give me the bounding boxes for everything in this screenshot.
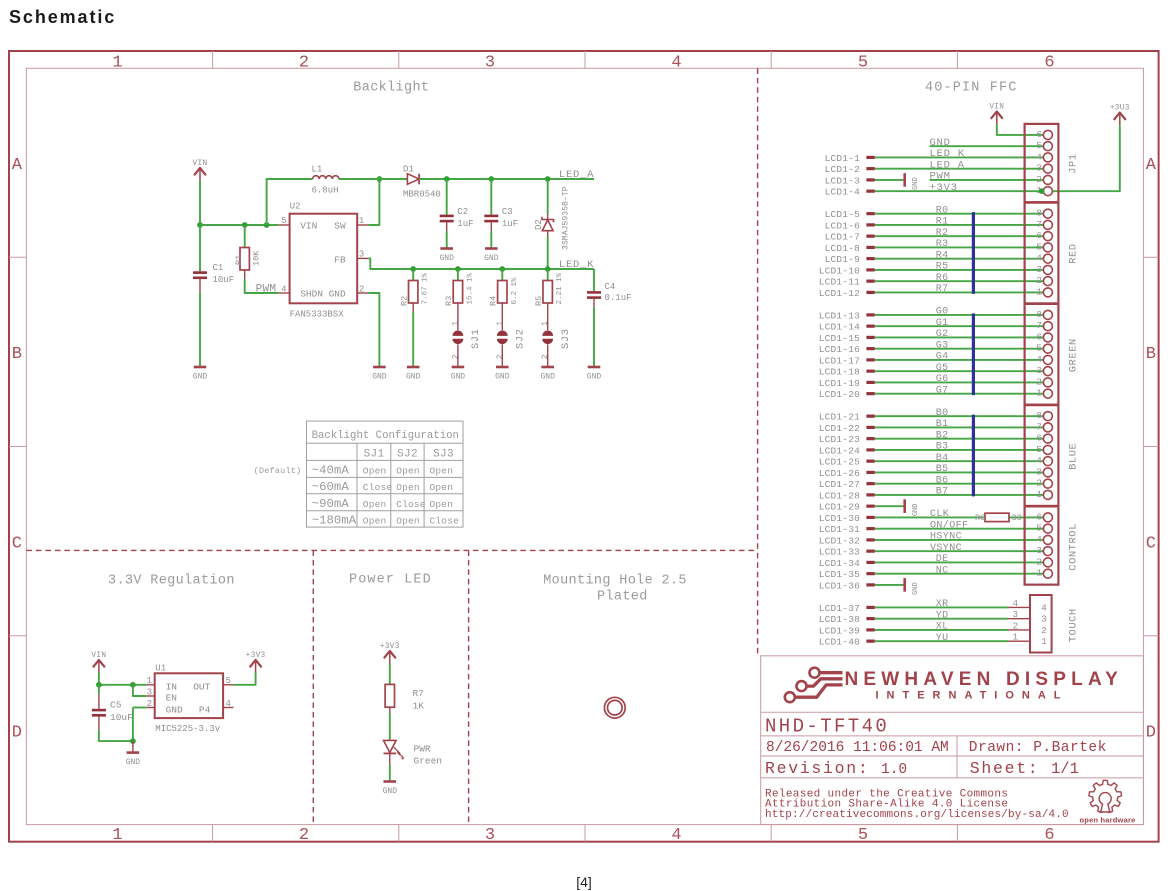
svg-text:G5: G5 (936, 363, 949, 374)
svg-text:R7: R7 (936, 284, 949, 295)
svg-text:EN: EN (166, 692, 177, 703)
svg-text:VIN: VIN (300, 221, 317, 232)
svg-text:R1: R1 (936, 217, 949, 228)
svg-text:LCD1-19: LCD1-19 (819, 378, 860, 389)
svg-text:FB: FB (334, 254, 346, 265)
svg-text:INTERNATIONAL: INTERNATIONAL (876, 690, 1069, 702)
svg-text:2: 2 (299, 826, 309, 845)
svg-text:~60mA: ~60mA (312, 480, 350, 494)
wire R7 to LED (389, 713, 391, 740)
ground GND under C1 (194, 366, 207, 369)
svg-text:(Default): (Default) (254, 466, 302, 476)
wire to L1 riser (267, 179, 313, 225)
pin 1 U2 SW (357, 224, 368, 226)
ground symbol at LCD1-29 (903, 499, 920, 516)
svg-text:2: 2 (1036, 556, 1042, 567)
svg-text:B4: B4 (936, 453, 949, 464)
zener diode D2 3SMAJ5935B-TP (534, 179, 571, 269)
svg-text:C5: C5 (110, 699, 122, 710)
svg-text:ON/OFF: ON/OFF (930, 519, 968, 531)
svg-text:4: 4 (671, 826, 681, 845)
svg-text:Open: Open (396, 482, 420, 493)
svg-text:Mounting Hole 2.5: Mounting Hole 2.5 (543, 574, 687, 589)
ground symbol at LCD1-36 (903, 578, 920, 595)
svg-text:1K: 1K (413, 701, 425, 712)
svg-text:SJ3: SJ3 (560, 329, 572, 349)
svg-text:PWM: PWM (930, 171, 951, 183)
svg-text:1: 1 (541, 321, 550, 326)
table row ~40mA (312, 463, 453, 477)
svg-text:40-PIN FFC: 40-PIN FFC (925, 80, 1018, 95)
wire and pin stub LCD1-17 (819, 355, 1048, 366)
wire and pin stub LCD1-26 (819, 468, 1048, 479)
svg-text:LCD1-33: LCD1-33 (819, 547, 860, 558)
svg-text:GND: GND (912, 504, 920, 517)
wire and pin stub LCD1-12 (819, 288, 1048, 299)
mounting hole pad (604, 697, 625, 718)
svg-text:C3: C3 (502, 207, 513, 217)
svg-text:LCD1-28: LCD1-28 (819, 490, 860, 501)
solder jumper SJ3 (541, 312, 572, 367)
capacitor C3 1uF (484, 179, 518, 249)
node junction D2 anode on LED_K (545, 266, 551, 272)
svg-text:LCD1-21: LCD1-21 (819, 412, 860, 423)
logo open hardware gear (1089, 780, 1122, 812)
wire and pin stub LCD1-7 (825, 232, 1048, 243)
svg-text:C: C (1146, 534, 1156, 553)
bus BLUE bits (972, 415, 975, 497)
svg-text:1: 1 (451, 321, 460, 326)
wire VIN to JP1 pin 6 (997, 124, 1048, 135)
svg-text:5: 5 (1036, 140, 1042, 151)
svg-text:HSYNC: HSYNC (930, 532, 962, 543)
svg-text:Backlight: Backlight (353, 80, 429, 95)
svg-text:P4: P4 (199, 704, 211, 715)
LED PWR Green (384, 740, 443, 766)
svg-text:2: 2 (1041, 625, 1047, 636)
svg-text:1/1: 1/1 (1051, 760, 1079, 778)
svg-text:4: 4 (1036, 354, 1042, 365)
section divider dashed horizontal (26, 549, 757, 551)
svg-text:4: 4 (1013, 599, 1018, 609)
svg-text:R6: R6 (975, 513, 985, 523)
svg-text:Open: Open (430, 499, 454, 510)
svg-text:A: A (1146, 156, 1157, 175)
svg-text:LCD1-18: LCD1-18 (819, 367, 860, 378)
ground GND under U2 pin2 (373, 366, 386, 369)
pin 3 U1 EN (146, 695, 154, 697)
svg-text:5: 5 (226, 676, 231, 686)
svg-text:LCD1-8: LCD1-8 (825, 243, 861, 254)
svg-text:15.4 1%: 15.4 1% (466, 272, 474, 304)
svg-text:PWM: PWM (256, 283, 277, 295)
title block license text (765, 788, 1069, 821)
node junction C2 on LED_A (444, 176, 450, 182)
svg-text:2: 2 (147, 699, 152, 709)
wire and pin stub LCD1-9 (825, 254, 1048, 265)
wire GND net to JP1 pin 5 (930, 145, 1048, 147)
svg-text:Green: Green (414, 756, 443, 767)
svg-text:~40mA: ~40mA (312, 463, 350, 477)
svg-text:2: 2 (1036, 275, 1042, 286)
svg-text:+3U3: +3U3 (1110, 104, 1130, 112)
svg-text:A: A (12, 156, 23, 175)
wire and pin stub LCD1-28 (819, 490, 1048, 501)
node junction ground rail (130, 738, 136, 744)
svg-text:GND: GND (930, 137, 951, 149)
svg-text:3: 3 (1041, 614, 1047, 625)
svg-text:8/26/2016 11:06:01 AM: 8/26/2016 11:06:01 AM (766, 740, 949, 756)
svg-text:7: 7 (1036, 320, 1042, 331)
svg-text:CONTROL: CONTROL (1068, 523, 1080, 571)
svg-text:1: 1 (359, 216, 364, 226)
svg-text:LCD1-15: LCD1-15 (819, 333, 860, 344)
node junction U2 VIN branch (264, 222, 270, 228)
resistor R1 (234, 225, 262, 279)
svg-text:3.3V Regulation: 3.3V Regulation (108, 574, 235, 589)
svg-text:R1: R1 (234, 255, 244, 265)
svg-text:B7: B7 (936, 487, 949, 498)
power symbol VIN regulator (93, 660, 105, 667)
svg-text:GND: GND (912, 582, 920, 595)
svg-text:LCD1-9: LCD1-9 (825, 254, 861, 265)
svg-text:G7: G7 (936, 385, 949, 396)
svg-text:Drawn: P.Bartek: Drawn: P.Bartek (969, 740, 1107, 756)
svg-text:LCD1-6: LCD1-6 (825, 220, 861, 231)
logo Newhaven Display circuit mark (785, 668, 843, 703)
connector JP1 box (1025, 124, 1059, 202)
svg-text:3: 3 (1036, 545, 1042, 556)
node junction R4 on LED_K (499, 266, 505, 272)
svg-text:1uF: 1uF (457, 219, 473, 229)
svg-text:Revision:: Revision: (765, 759, 869, 778)
wire and pin stub LCD1-21 (819, 412, 1048, 423)
svg-text:R6: R6 (936, 273, 949, 284)
svg-text:7: 7 (1036, 219, 1042, 230)
svg-text:LCD1-10: LCD1-10 (819, 265, 860, 276)
svg-text:B3: B3 (936, 442, 949, 453)
wire and pin stub LCD1-15 (819, 333, 1048, 344)
op-amp U1 MIC5225-3.3v regulator (155, 663, 223, 734)
svg-text:6: 6 (1036, 129, 1042, 140)
wire and pin stub LCD1-39 (819, 625, 1009, 636)
node junction SW on LED_A rail (377, 176, 383, 182)
svg-text:3SMAJ5935B-TP: 3SMAJ5935B-TP (562, 186, 571, 250)
svg-text:LCD1-36: LCD1-36 (819, 580, 860, 591)
wire and pin stub LCD1-3 (825, 175, 903, 186)
wire and pin stub LCD1-14 (819, 322, 1048, 333)
node junction D2 on LED_A (545, 176, 551, 182)
svg-text:~180mA: ~180mA (312, 514, 357, 528)
svg-text:VSYNC: VSYNC (930, 543, 962, 554)
svg-text:LCD1-12: LCD1-12 (819, 288, 860, 299)
svg-text:LCD1-39: LCD1-39 (819, 625, 860, 636)
svg-text:GND: GND (495, 373, 510, 382)
wire FB to LED_K rail (368, 258, 594, 269)
svg-text:MIC5225-3.3v: MIC5225-3.3v (155, 724, 220, 734)
svg-text:B6: B6 (936, 475, 949, 486)
svg-text:SHDN: SHDN (300, 289, 323, 300)
svg-text:G4: G4 (936, 352, 949, 363)
table Backlight Configuration border (307, 421, 464, 527)
svg-text:3: 3 (1036, 163, 1042, 174)
svg-text:4: 4 (671, 54, 681, 73)
svg-text:Sheet:: Sheet: (970, 759, 1040, 778)
svg-text:R3: R3 (936, 239, 949, 250)
resistor R4 6.2 1% (489, 269, 519, 312)
svg-text:5: 5 (1036, 444, 1042, 455)
svg-text:GND: GND (439, 254, 454, 263)
wire and pin stub LCD1-29 (819, 502, 903, 513)
svg-text:LCD1-14: LCD1-14 (819, 322, 860, 333)
svg-text:R2: R2 (936, 228, 949, 239)
svg-text:Open: Open (396, 516, 420, 527)
svg-text:open hardware: open hardware (1080, 815, 1136, 824)
wire LED_A rail (419, 178, 594, 180)
node junction VIN C5 (96, 682, 102, 688)
svg-text:3: 3 (1013, 610, 1018, 620)
svg-text:JP1: JP1 (1068, 153, 1080, 173)
svg-text:6: 6 (1044, 54, 1054, 73)
svg-text:LED_A: LED_A (559, 169, 594, 181)
svg-text:6: 6 (1036, 433, 1042, 444)
wire and pin stub LCD1-23 (819, 434, 1048, 445)
svg-text:http://creativecommons.org/lic: http://creativecommons.org/licenses/by-s… (765, 809, 1069, 821)
svg-text:Power LED: Power LED (349, 573, 432, 588)
wire OUT to +3V3 (233, 673, 255, 685)
ground GND under R2 branch (407, 366, 420, 369)
wire and pin stub LCD1-2 (825, 164, 1048, 175)
svg-text:GND: GND (329, 289, 346, 300)
svg-text:1: 1 (496, 321, 505, 326)
wire +3V3 rail to JP1 pin 1 (1048, 125, 1120, 191)
svg-text:LCD1-5: LCD1-5 (825, 209, 861, 220)
diode D1 MBR0540 (403, 164, 441, 199)
svg-text:SJ1: SJ1 (470, 329, 482, 349)
svg-text:R0: R0 (936, 205, 949, 216)
svg-text:4: 4 (1036, 151, 1042, 162)
svg-text:B0: B0 (936, 408, 949, 419)
svg-text:1: 1 (1036, 388, 1042, 399)
svg-text:3: 3 (359, 250, 364, 260)
frame column numbers top (112, 54, 1054, 73)
inductor L1 6.8uH (312, 164, 339, 195)
svg-text:L1: L1 (312, 164, 323, 174)
svg-text:5: 5 (281, 216, 286, 226)
svg-text:LCD1-34: LCD1-34 (819, 558, 860, 569)
svg-text:10uF: 10uF (213, 275, 235, 285)
svg-text:R5: R5 (936, 262, 949, 273)
power symbol +3V3 connector (1114, 113, 1126, 120)
svg-text:OUT: OUT (193, 681, 210, 692)
svg-text:4: 4 (1036, 534, 1042, 545)
svg-text:LCD1-11: LCD1-11 (819, 277, 860, 288)
svg-text:1: 1 (1036, 489, 1042, 500)
svg-text:1: 1 (1013, 633, 1018, 643)
svg-text:LCD1-27: LCD1-27 (819, 479, 860, 490)
svg-text:FAN5333BSX: FAN5333BSX (290, 310, 345, 320)
svg-text:XL: XL (936, 622, 949, 633)
svg-text:SJ2: SJ2 (515, 329, 527, 349)
svg-text:B: B (12, 345, 22, 364)
svg-text:[4]: [4] (576, 874, 592, 890)
svg-text:LCD1-7: LCD1-7 (825, 232, 860, 243)
svg-text:R2: R2 (399, 296, 409, 306)
svg-text:2: 2 (451, 354, 460, 359)
wire and pin stub LCD1-6 (825, 220, 1048, 231)
svg-text:VIN: VIN (91, 652, 106, 660)
svg-text:C4: C4 (605, 282, 616, 292)
wire and pin stub LCD1-13 (819, 310, 1048, 321)
wire L1 to D1 (339, 178, 408, 180)
wire R2 to ground (412, 312, 414, 367)
svg-text:G6: G6 (936, 374, 949, 385)
svg-text:Backlight Configuration: Backlight Configuration (312, 430, 459, 442)
connector GREEN box (1025, 304, 1059, 405)
svg-text:0.1uF: 0.1uF (605, 293, 632, 303)
svg-text:1: 1 (147, 676, 152, 686)
pin 4 U2 SHDN (278, 292, 289, 294)
node junction R2 on LED_K (410, 266, 416, 272)
svg-text:GND: GND (451, 373, 466, 382)
svg-text:3: 3 (485, 826, 495, 845)
svg-text:B5: B5 (936, 464, 949, 475)
wire and pin stub LCD1-32 (819, 535, 1048, 546)
svg-text:GND: GND (484, 254, 499, 263)
svg-text:B1: B1 (936, 419, 949, 430)
svg-text:MBR0540: MBR0540 (403, 190, 441, 200)
section divider dashed vertical left (312, 550, 314, 824)
svg-text:4: 4 (281, 284, 286, 294)
svg-text:Open: Open (363, 465, 387, 476)
svg-text:1: 1 (1041, 636, 1047, 647)
svg-text:1.0: 1.0 (881, 762, 907, 778)
ground GND under regulator (126, 741, 141, 767)
svg-text:1: 1 (1036, 568, 1042, 579)
svg-text:2: 2 (496, 354, 505, 359)
ground GND under R4 branch (496, 366, 509, 369)
svg-text:1: 1 (1036, 286, 1042, 297)
svg-text:GND: GND (372, 373, 387, 382)
svg-text:G1: G1 (936, 318, 949, 329)
wire and pin stub LCD1-25 (819, 457, 1048, 468)
node junction VIN rail left (197, 222, 203, 228)
svg-text:GND: GND (193, 373, 208, 382)
power symbol VIN backlight (194, 168, 206, 175)
svg-text:GREEN: GREEN (1068, 338, 1080, 372)
pin 5 U2 VIN (278, 224, 289, 226)
svg-text:DE: DE (936, 554, 949, 565)
table column headers SJ1 SJ2 SJ3 (364, 449, 454, 461)
svg-text:LED_A: LED_A (930, 159, 965, 171)
node junction +3V3 at JP1 pin1 (1039, 188, 1045, 194)
svg-text:Open: Open (363, 516, 387, 527)
resistor R5 2.21 1% (534, 269, 564, 312)
svg-text:8: 8 (1036, 410, 1042, 421)
svg-text:10K: 10K (252, 250, 262, 266)
svg-text:LCD1-29: LCD1-29 (819, 502, 860, 513)
section divider dashed vertical right (757, 68, 759, 656)
svg-text:2: 2 (1036, 478, 1042, 489)
svg-text:G3: G3 (936, 340, 949, 351)
power symbol +3V3 regulator (250, 660, 262, 667)
svg-text:LCD1-3: LCD1-3 (825, 175, 861, 186)
svg-text:LCD1-26: LCD1-26 (819, 468, 860, 479)
svg-text:R7: R7 (413, 688, 424, 699)
svg-text:Plated: Plated (597, 590, 648, 605)
net labels on connector wires (930, 205, 968, 644)
pin 1 U1 IN (146, 684, 154, 686)
svg-text:LCD1-17: LCD1-17 (819, 355, 860, 366)
wire U2 GND to ground (368, 293, 379, 367)
svg-text:1: 1 (112, 826, 122, 845)
svg-text:3: 3 (485, 54, 495, 73)
svg-text:G0: G0 (936, 307, 949, 318)
svg-text:8: 8 (1036, 208, 1042, 219)
svg-text:4: 4 (1041, 602, 1047, 613)
svg-text:GND: GND (126, 758, 141, 767)
svg-text:YD: YD (936, 610, 949, 621)
connector RED box (1025, 203, 1059, 304)
svg-text:5: 5 (858, 54, 868, 73)
svg-text:2: 2 (299, 54, 309, 73)
svg-text:GND: GND (587, 373, 602, 382)
wire and pin stub LCD1-34 (819, 558, 1048, 569)
resistor R7 1K (385, 684, 424, 713)
svg-text:GND: GND (383, 787, 398, 796)
wire and pin stub LCD1-31 (819, 524, 1048, 535)
capacitor C1 (193, 225, 234, 367)
svg-text:6.2 1%: 6.2 1% (511, 277, 519, 305)
svg-text:C: C (12, 534, 22, 553)
capacitor C5 10uF (92, 685, 133, 741)
svg-text:PWR: PWR (414, 744, 431, 755)
node junction IN EN tie (130, 682, 136, 688)
wire and pin stub LCD1-18 (819, 367, 1048, 378)
wire LED to ground (389, 753, 391, 781)
svg-text:LED_K: LED_K (559, 259, 594, 271)
resistor R6 33 on CLK (975, 513, 1022, 523)
wire SW to LED_A rail (368, 179, 379, 225)
svg-text:R3: R3 (444, 296, 454, 306)
wire and pin stub LCD1-27 (819, 479, 1048, 490)
title block sheet (970, 759, 1079, 778)
svg-text:G2: G2 (936, 329, 949, 340)
svg-text:LCD1-2: LCD1-2 (825, 164, 861, 175)
svg-text:Open: Open (430, 465, 454, 476)
bus GREEN bits (972, 313, 975, 395)
wire and pin stub LCD1-37 (819, 603, 1009, 614)
svg-text:NEWHAVEN DISPLAY: NEWHAVEN DISPLAY (845, 669, 1124, 690)
svg-text:LED_K: LED_K (930, 148, 965, 160)
svg-text:GND: GND (406, 373, 421, 382)
svg-text:+3V3: +3V3 (380, 643, 400, 651)
node junction R1 top (242, 222, 248, 228)
svg-text:Open: Open (430, 482, 454, 493)
wire and pin stub LCD1-8 (825, 243, 1048, 254)
svg-text:LCD1-40: LCD1-40 (819, 637, 860, 648)
wire and pin stub LCD1-20 (819, 389, 1048, 400)
svg-text:LCD1-38: LCD1-38 (819, 614, 860, 625)
ground GND under R3 branch (452, 366, 465, 369)
svg-text:LCD1-20: LCD1-20 (819, 389, 860, 400)
bus RED bits (972, 212, 975, 294)
pin 4 U1 P4 no connect (223, 707, 233, 709)
frame row letters left (12, 156, 23, 743)
svg-text:VIN: VIN (989, 103, 1004, 111)
svg-text:LCD1-31: LCD1-31 (819, 524, 860, 535)
svg-text:LCD1-13: LCD1-13 (819, 310, 860, 321)
